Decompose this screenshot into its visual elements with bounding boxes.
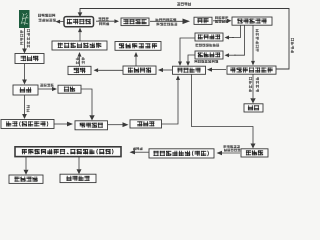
label on arrow 少儿教育系统→摇钱树 <box>133 147 136 150</box>
note text left of 试治病号 <box>38 14 41 17</box>
vertical label near right feedback line <box>291 38 294 41</box>
arrow 激活会员卡 → 促使介绍新病号 <box>252 26 254 61</box>
box 准会员 <box>15 54 44 64</box>
arrowhead into 会员库 top <box>252 140 254 144</box>
arrowhead into 会议联谊 top <box>91 114 93 115</box>
arrow 试治 → 会员(正式病号) <box>24 95 26 114</box>
arrow 康复 → 促进新病号产生 <box>79 57 81 66</box>
wire branch B <box>234 25 245 55</box>
box 奖励 <box>244 104 263 112</box>
arrow 促进新病号产生 → 试治病号 <box>79 32 81 41</box>
box 远程诊疗协助 <box>115 42 161 51</box>
vertical labels flanking 奖励 arrow <box>249 77 252 80</box>
box 试治病号 <box>64 17 94 27</box>
arrow 摇钱树 → 收取年费 <box>25 157 27 170</box>
box 少儿教育系统(平台) <box>149 149 214 158</box>
arrow 促使介绍新病号 → 上传系统 <box>212 69 226 71</box>
note between 特价商品 and 平价商品 <box>196 44 199 47</box>
vertical label right of that arrow <box>256 29 259 32</box>
arrowhead into 上传系统 top (from 平价商品) <box>187 60 189 62</box>
note below 平价商品 <box>195 60 198 63</box>
arrow 会员库 → 少儿教育系统 <box>222 152 240 154</box>
vertical label right of logo arrow <box>27 29 30 32</box>
arrow 准会员 → 试治 <box>24 64 26 80</box>
label on arrow 正式病号→会员 <box>156 18 159 21</box>
arrow 正式病号 → 会员 <box>150 20 183 22</box>
box 上传系统 <box>173 66 206 74</box>
arrow into 特价商品 right <box>229 37 234 39</box>
box 运作上市 <box>60 174 96 182</box>
arrow 公司讨论 → 远程诊疗协助 <box>135 57 137 66</box>
tiny label right of that arrow <box>27 105 30 108</box>
label on arrow 会员库→少儿教育系统 <box>224 145 227 148</box>
label on arrow 会员→激活会员卡 <box>215 16 218 19</box>
wire 平价商品 down <box>188 55 195 60</box>
box 会员 <box>194 17 212 24</box>
arrow 少儿教育系统 → 摇钱树 <box>135 151 149 153</box>
wire: feedback loop right-top <box>80 9 289 70</box>
arrow 试治 → 联络 <box>39 88 53 90</box>
box 促使介绍新病号 <box>227 66 276 74</box>
box 正式病号 <box>121 18 149 26</box>
box 公司讨论 <box>123 66 156 74</box>
box 会员库 <box>241 149 268 157</box>
box 收取年费 <box>9 175 43 183</box>
wire 联络 down <box>81 89 92 114</box>
arrow 促使介绍新病号 → 奖励 <box>252 75 254 99</box>
label on arrow 试治→联络 <box>40 84 43 87</box>
box 促进新病号产生 <box>52 41 107 50</box>
box 摇钱树少儿教育、健康平台(系统) <box>15 147 121 157</box>
wire 特价商品 down <box>180 38 195 60</box>
wire branch A <box>232 25 241 37</box>
box 特价商品 <box>195 33 223 41</box>
box 会议联谊 <box>75 121 108 130</box>
arrowhead into 上传系统 bottom <box>177 80 179 81</box>
box 试治 <box>13 85 38 95</box>
arrow into 平价商品 right <box>229 54 236 56</box>
box 平价商品 <box>195 51 223 59</box>
tiny labels flanking 康复→促进 arrow <box>76 57 79 60</box>
arrow 试治病号 → 正式病号 <box>96 20 114 22</box>
arrow 试治病号 → left note <box>60 21 64 23</box>
box 会员(正式病号) <box>1 120 54 129</box>
arrow 会议联谊 → 新病号 <box>108 124 123 126</box>
box 新病号 <box>130 120 162 128</box>
wire 上传系统 down-right <box>192 75 254 141</box>
arrow 公司讨论 → 康复 <box>98 69 123 71</box>
vertical label left of logo arrow <box>20 30 23 33</box>
box 激活会员卡 <box>232 17 272 25</box>
arrow 会员 → 激活会员卡 <box>213 20 227 22</box>
arrow into 试治病号 top <box>79 11 81 14</box>
box 康复 <box>68 66 91 74</box>
arrow 上传系统 → 公司讨论 <box>163 69 172 71</box>
arrow logo → 准会员 <box>24 28 26 49</box>
logo: green tree emblem <box>19 10 30 28</box>
arrowhead into 上传系统 top (from 特价商品) <box>179 60 181 62</box>
arrow 会员(正式病号) → 会议联谊 <box>54 123 67 125</box>
arrow 摇钱树 → 运作上市 <box>78 157 80 170</box>
wire 新病号 up <box>162 81 179 124</box>
label on arrow 试治病号→正式病号 <box>99 17 102 20</box>
label on top feedback line <box>177 2 180 5</box>
box 联络 <box>58 85 81 93</box>
